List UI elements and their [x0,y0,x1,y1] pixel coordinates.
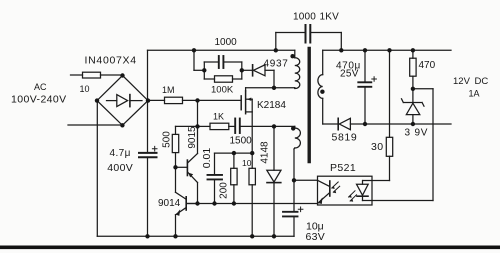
bridge rectifier IN4007X4 diamond [97,76,148,126]
border bar bottom [0,246,500,250]
transformer aux winding [294,126,300,180]
polarity dot aux winding [291,126,295,130]
zener diode 3.9V [402,89,425,124]
wire top rail primary [148,49,276,51]
svg-text:IN4007X4: IN4007X4 [85,55,137,67]
junction 4.7u on bottom rail [145,234,149,238]
wire 0.01 top row [215,152,253,154]
junction 1KV cap right on secondary rail [339,48,343,52]
wire output lower rail [350,123,451,125]
junction source / 10 top [250,151,254,155]
optocoupler phototransistor [318,180,340,204]
svg-text:9014: 9014 [158,198,181,209]
svg-text:AC: AC [34,82,47,92]
transistor 9015 [176,126,198,203]
svg-text:4.7μ: 4.7μ [110,148,131,159]
wire AC neutral input [68,124,122,126]
capacitor 1000 1KV [276,25,342,50]
svg-text:1000: 1000 [215,37,238,48]
node zener cathode / feedback [411,87,415,91]
wire bridge plus riser to top rail [147,50,149,100]
resistor 1K [198,123,236,129]
node 9014 base / 9015 emitter [195,201,199,205]
svg-text:400V: 400V [107,162,133,174]
junction bridge AC2 bottom vertex [120,123,124,127]
polarity dot secondary winding [320,90,324,94]
capacitor 470u 25V [358,50,376,124]
wire top rail secondary [323,49,451,51]
wire source node row to aux winding [274,125,295,127]
svg-text:10: 10 [242,158,252,168]
wire bridge minus drop to bottom rail [96,101,98,237]
resistor 470 [410,50,416,89]
resistor 500 [172,126,178,167]
junction 4148 cathode on bottom rail [272,234,276,238]
junction snubber right node [240,68,244,72]
resistor 1M [148,97,198,103]
wire base rail [186,203,317,205]
svg-text:3 9V: 3 9V [405,128,429,139]
svg-text:1000: 1000 [293,12,316,23]
junction zener anode on output rail [411,122,415,126]
transformer core [308,49,311,162]
capacitor 0.01 [208,153,223,203]
junction 200 top [232,151,236,155]
svg-text:1KV: 1KV [320,12,340,23]
resistor 100K (snubber) [204,70,242,82]
junction 4148 anode row [272,124,276,128]
junction bridge AC1 top vertex [120,73,124,77]
wire node A drop [197,100,199,126]
resistor 10 (source) [249,153,255,236]
svg-text:4937: 4937 [264,59,289,70]
junction 30 top on secondary rail [387,48,391,52]
svg-text:63V: 63V [306,231,326,243]
bridge diode symbol [107,95,143,107]
svg-text:K2184: K2184 [257,100,286,111]
junction snubber left node [202,68,206,72]
svg-text:0.01: 0.01 [201,148,213,169]
optocoupler LED [349,181,369,202]
node gate A [195,98,199,102]
junction bridge DC- left vertex [95,98,99,102]
svg-text:25V: 25V [340,69,359,80]
capacitor 1500 [235,119,274,134]
svg-text:500: 500 [161,131,172,148]
svg-text:5819: 5819 [332,132,358,144]
node aux bottom / opto collector [292,178,296,182]
junction 200 bottom on base rail [232,201,236,205]
junction 0.01 bottom on base rail [212,201,216,205]
resistor 200 [231,153,237,203]
junction 9014 emitter on bottom rail [173,234,177,238]
svg-text:9015: 9015 [187,126,198,149]
wire feedback [363,89,434,201]
transformer secondary winding [318,50,323,124]
svg-text:470: 470 [419,60,436,71]
resistor 30 [363,50,393,180]
wire snubber drop [194,50,204,70]
optocoupler P521 box [318,176,373,205]
svg-text:200: 200 [219,182,230,199]
svg-text:4148: 4148 [260,141,271,164]
wire gate [198,99,242,101]
junction 1KV cap left on top rail [274,48,278,52]
junction 470 top on secondary rail [411,48,415,52]
junction bridge DC+ right vertex [146,98,150,102]
svg-text:1500: 1500 [230,136,253,147]
capacitor 10u 63V [283,180,303,236]
node B 1K branch [195,124,199,128]
wire aux to opto [294,179,318,181]
capacitor 4.7u 400V [139,101,157,237]
wire AC live input [71,74,83,76]
svg-text:1K: 1K [213,112,224,122]
svg-text:10: 10 [80,84,90,94]
polarity dot primary winding [290,54,294,58]
svg-text:DC: DC [475,76,489,87]
node C 9015 base [173,165,177,169]
diode 4148 [267,126,281,236]
wire bottom rail [97,235,294,237]
svg-text:12V: 12V [453,76,471,87]
svg-text:30: 30 [371,141,383,153]
transformer primary winding [276,50,300,88]
svg-text:100V-240V: 100V-240V [11,94,67,106]
junction 470u top on secondary rail [363,48,367,52]
wire node B left jog [176,125,198,127]
node drain [272,86,276,90]
MOSFET K2184 [241,88,252,153]
transistor 9014 [176,167,198,236]
junction 470u bottom on output rail [363,122,367,126]
svg-text:P521: P521 [330,162,356,174]
svg-text:100K: 100K [211,85,234,96]
svg-text:1A: 1A [469,89,480,99]
junction 10 bottom on bottom rail [250,234,254,238]
junction snubber tap on top rail [192,48,196,52]
resistor 10 (inrush) [83,72,123,78]
wire drain row [246,87,295,89]
capacitor 1000 (snubber) [204,56,242,70]
diode 4937 [242,65,274,88]
diode 5819 [323,118,351,129]
svg-text:1M: 1M [162,85,175,95]
